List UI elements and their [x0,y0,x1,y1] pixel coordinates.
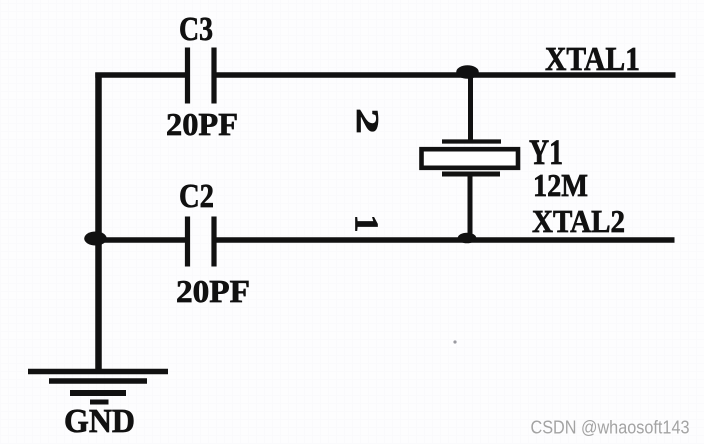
wire: crystal lower lead to bottom junction [468,176,473,240]
wire: bottom horizontal XTAL2 net, left segment to C2 [95,237,185,243]
capacitor C3 right plate [211,48,216,104]
svg-text:20PF: 20PF [166,106,238,142]
svg-text:1: 1 [348,215,385,233]
node: junction dot on bottom rail below crystal [458,233,477,244]
capacitor C3 left plate [185,48,190,104]
crystal Y1 bottom plate [442,172,500,177]
ground: bar 1 (top, widest) [28,369,168,374]
svg-text:2: 2 [350,108,386,134]
svg-text:GND: GND [64,403,135,440]
wire: bottom horizontal XTAL2 net, right segment from C2 to line end [217,237,675,243]
speck artifact [453,340,456,343]
ground: bar 3 [70,390,126,396]
svg-text:XTAL2: XTAL2 [532,203,625,239]
wire: top horizontal XTAL1 net, right segment from C3 to line end [217,72,676,78]
svg-text:XTAL1: XTAL1 [545,41,640,78]
crystal Y1 top plate [442,139,501,143]
ground: bar 2 [49,378,147,383]
svg-text:C2: C2 [179,178,214,215]
svg-text:C3: C3 [179,11,213,48]
wire: left vertical rail from top corner down to ground [95,73,102,372]
capacitor C2 right plate [211,217,216,267]
crystal Y1 body rectangle [422,149,519,168]
node: junction dot on left rail at XTAL2 net [84,232,107,246]
svg-text:20PF: 20PF [176,273,250,309]
wire: top horizontal XTAL1 net, left segment to C3 [95,72,185,78]
wire: crystal upper lead from top junction [468,73,473,141]
svg-text:12M: 12M [533,167,588,203]
node: junction dot on top rail above crystal [456,65,479,79]
capacitor C2 left plate [185,217,190,267]
svg-text:Y1: Y1 [529,132,563,172]
svg-text:CSDN @whaosoft143: CSDN @whaosoft143 [531,418,690,438]
ground: bar 4 (smallest) [90,400,109,405]
